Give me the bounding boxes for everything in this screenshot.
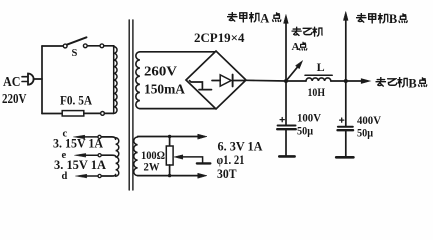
resistor R1 100ohm 2W xyxy=(166,137,173,176)
net label: qu jia ji A dian (to set A point A) xyxy=(227,12,280,22)
wire: bridge output to node A xyxy=(246,79,286,82)
ground G1 xyxy=(279,155,294,158)
svg-text:150mA: 150mA xyxy=(144,82,185,97)
AC plug P1 xyxy=(22,74,42,85)
wiper tap arrow phi1.21 xyxy=(174,155,210,164)
capacitor C1 100V 50u xyxy=(277,81,296,155)
svg-text:50μ: 50μ xyxy=(297,124,313,138)
svg-text:220V: 220V xyxy=(2,92,27,107)
transformer core xyxy=(129,20,133,190)
svg-text:d: d xyxy=(62,171,68,182)
wire: mains left vertical trunk xyxy=(41,46,43,114)
terminal c arrow xyxy=(74,135,102,139)
transformer T primary winding xyxy=(114,46,117,113)
terminal d arrow xyxy=(76,174,102,178)
svg-text:L: L xyxy=(317,60,325,74)
svg-text:F0. 5A: F0. 5A xyxy=(60,93,93,108)
svg-text:φ1. 21: φ1. 21 xyxy=(217,153,245,167)
svg-text:30T: 30T xyxy=(217,167,237,181)
svg-text:A: A xyxy=(292,41,300,53)
wire: 6.3V bottom rail with arrow xyxy=(138,173,207,178)
wire: arrow right to yi-ji B point xyxy=(346,79,371,84)
inductor L 10H xyxy=(305,75,332,81)
svg-text:6. 3V 1A: 6. 3V 1A xyxy=(218,139,263,153)
svg-text:B: B xyxy=(408,76,416,90)
svg-text:AC: AC xyxy=(3,75,21,90)
terminal e arrow xyxy=(75,153,102,157)
net label: qu yi ji / A dian (to set B point A) xyxy=(292,27,323,50)
capacitor C2 400V 50u xyxy=(338,81,354,156)
svg-text:100V: 100V xyxy=(297,111,321,125)
bridge rectifier U1 2CP19x4 diamond xyxy=(186,51,246,109)
svg-text:10H: 10H xyxy=(308,87,326,99)
transformer secondary 6.3V winding xyxy=(134,137,138,176)
svg-text:A: A xyxy=(260,11,269,25)
transformer secondary c-e winding 3.15V xyxy=(101,137,119,176)
net label: qu jia ji B dian xyxy=(356,13,407,23)
bridge inner AC-side symbol xyxy=(190,81,212,90)
svg-text:B: B xyxy=(389,12,397,26)
wire: bottom rail left of fuse xyxy=(42,113,62,115)
node A junction xyxy=(284,79,288,83)
node B junction xyxy=(344,79,348,83)
wire: secondary top rail to bridge xyxy=(140,51,215,53)
svg-text:2W: 2W xyxy=(144,160,160,174)
svg-text:3. 15V 1A: 3. 15V 1A xyxy=(53,137,103,151)
svg-text:2CP19×4: 2CP19×4 xyxy=(194,31,245,45)
switch S xyxy=(63,37,104,48)
svg-text:50μ: 50μ xyxy=(357,126,373,140)
wire: top rail to switch xyxy=(42,45,63,47)
junction dots on 6.3V rails xyxy=(168,135,171,138)
wire: 6.3V top rail with arrow xyxy=(138,134,207,139)
net label: qu yi ji B dian xyxy=(376,77,427,87)
wire: node A to inductor xyxy=(286,80,306,82)
wire: arrow up to jia-ji B point xyxy=(344,12,349,81)
fuse F0.5A xyxy=(62,111,113,116)
wire: inductor to node B xyxy=(331,80,346,82)
ground G2 xyxy=(336,156,353,159)
bridge inner diode xyxy=(212,75,245,87)
wire: secondary bottom rail to bridge xyxy=(140,108,215,110)
wire: diagonal arrow to yi-ji A point xyxy=(286,61,303,81)
wire: arrow up to jia-ji A point xyxy=(284,15,289,81)
transformer secondary 260V winding xyxy=(136,52,140,109)
svg-text:260V: 260V xyxy=(144,64,177,79)
svg-text:S: S xyxy=(72,48,78,59)
wire: switch to transformer primary top xyxy=(104,46,114,47)
